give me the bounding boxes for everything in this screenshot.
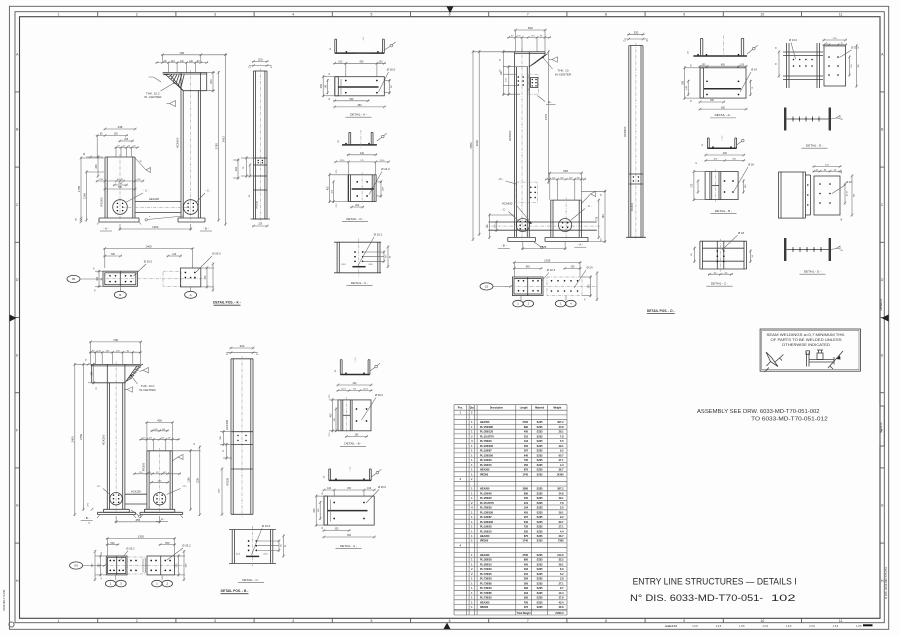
svg-text:PL:250/280: PL:250/280 bbox=[480, 426, 494, 429]
svg-text:1758: 1758 bbox=[77, 185, 81, 192]
svg-text:36.7: 36.7 bbox=[559, 469, 564, 472]
TR column top plate and right wing bbox=[503, 52, 545, 67]
svg-text:HEA300: HEA300 bbox=[480, 554, 490, 557]
BL tall dims left bbox=[74, 363, 76, 516]
svg-text:S235: S235 bbox=[537, 464, 543, 467]
TL plan left plate pair bbox=[103, 271, 138, 286]
svg-text:140: 140 bbox=[172, 253, 177, 256]
svg-text:29.1: 29.1 bbox=[559, 511, 564, 514]
svg-text:DETAIL POS. - K -: DETAIL POS. - K - bbox=[213, 301, 241, 305]
svg-text:1295: 1295 bbox=[544, 259, 551, 263]
TR tall dims far left bbox=[472, 50, 474, 241]
svg-text:S235: S235 bbox=[537, 592, 543, 595]
svg-text:280: 280 bbox=[320, 84, 323, 89]
right band format box bbox=[880, 406, 884, 446]
fold mark left center bbox=[10, 315, 17, 322]
svg-text:7.8: 7.8 bbox=[560, 502, 564, 505]
TR detail circle right base bbox=[559, 219, 572, 232]
svg-text:Ø 26.0: Ø 26.0 bbox=[375, 393, 384, 397]
svg-text:- A -: - A - bbox=[159, 517, 164, 521]
TR side view column bbox=[629, 43, 643, 239]
TL detail C right dims bbox=[383, 246, 392, 269]
svg-text:8.3: 8.3 bbox=[560, 568, 564, 571]
svg-text:PL:730/20: PL:730/20 bbox=[480, 597, 492, 600]
BL detail B caption bbox=[340, 442, 366, 447]
BL detail circle right bbox=[153, 493, 165, 505]
svg-text:7: 7 bbox=[527, 13, 529, 17]
TL detail C dia label bbox=[358, 233, 383, 266]
BL flag symbol near gusset bbox=[140, 368, 149, 373]
svg-text:- D -: - D - bbox=[498, 177, 504, 181]
svg-text:4.4: 4.4 bbox=[560, 464, 564, 467]
svg-text:6033-MD-T70-051: 6033-MD-T70-051 bbox=[2, 589, 6, 611]
TR dim row at top bbox=[507, 36, 551, 38]
BL -C- callouts bbox=[96, 484, 188, 495]
TL dim 230/530 bbox=[104, 188, 137, 190]
svg-text:S235: S235 bbox=[537, 431, 543, 434]
svg-text:10: 10 bbox=[761, 13, 765, 17]
TR detail C bottom dims bbox=[708, 273, 733, 275]
TR stub dim row bbox=[545, 178, 586, 180]
svg-text:IPE300: IPE300 bbox=[256, 200, 259, 209]
svg-text:IPE500: IPE500 bbox=[480, 540, 489, 543]
BL caption DETAIL POS - B - bbox=[221, 589, 249, 594]
TL plan dim 1400 bbox=[103, 248, 194, 250]
svg-text:TO 6033-MD-T70-051-012: TO 6033-MD-T70-051-012 bbox=[751, 417, 828, 423]
svg-text:HEA200: HEA200 bbox=[480, 535, 490, 538]
svg-text:HCA500: HCA500 bbox=[623, 126, 627, 137]
svg-text:A: A bbox=[190, 293, 192, 297]
svg-text:890: 890 bbox=[524, 426, 529, 429]
TL dim row 65 150 bbox=[96, 135, 128, 137]
svg-text:PL:25.87/70: PL:25.87/70 bbox=[480, 435, 494, 438]
BL plan dims 540 550 bbox=[106, 542, 176, 546]
svg-text:HEA200: HEA200 bbox=[149, 197, 160, 201]
svg-text:210: 210 bbox=[524, 502, 529, 505]
svg-text:OTHERWISE INDICATED: OTHERWISE INDICATED bbox=[782, 343, 831, 347]
BL side view dim 320 bbox=[230, 347, 255, 349]
TL detail D plan square bbox=[348, 172, 376, 204]
svg-text:550: 550 bbox=[165, 542, 170, 545]
TL side view lower labels bbox=[249, 190, 267, 209]
svg-text:1470: 1470 bbox=[544, 113, 548, 120]
BL detail C caption bbox=[238, 578, 264, 583]
TR flag symbol bbox=[549, 57, 558, 62]
svg-text:ENTRY LINE STRUCTURES — DETAIL: ENTRY LINE STRUCTURES — DETAILS I bbox=[633, 576, 797, 587]
svg-text:PL:780/20: PL:780/20 bbox=[480, 440, 492, 443]
TR detail A bottom dims bbox=[699, 80, 755, 111]
svg-text:PL:200/15: PL:200/15 bbox=[480, 530, 492, 533]
svg-text:2790: 2790 bbox=[522, 421, 528, 424]
svg-text:Weight: Weight bbox=[553, 407, 561, 410]
svg-text:43.4: 43.4 bbox=[559, 601, 564, 604]
bottom scale ruler bbox=[665, 624, 873, 628]
svg-text:S235: S235 bbox=[537, 526, 543, 529]
svg-text:Ø 18: Ø 18 bbox=[738, 231, 745, 235]
svg-text:Ø 26: Ø 26 bbox=[748, 163, 754, 167]
BL detail A left dims bbox=[313, 492, 324, 530]
svg-text:Ø 24: Ø 24 bbox=[586, 266, 593, 270]
svg-text:S235: S235 bbox=[537, 450, 543, 453]
svg-text:PL:250/45: PL:250/45 bbox=[480, 492, 492, 495]
BL plan dim 1305 bbox=[106, 537, 176, 539]
svg-text:2: 2 bbox=[136, 13, 138, 17]
svg-text:IPE300: IPE300 bbox=[100, 197, 104, 207]
svg-text:4.4: 4.4 bbox=[560, 530, 564, 533]
svg-text:250: 250 bbox=[524, 464, 529, 467]
svg-text:- C -: - C - bbox=[143, 189, 149, 193]
TR detail B right dim bbox=[742, 180, 747, 194]
svg-text:DETAIL - D -: DETAIL - D - bbox=[346, 217, 363, 221]
svg-text:290: 290 bbox=[524, 597, 529, 600]
TR detail A caption bbox=[710, 113, 736, 118]
svg-text:1 0,5: 1 0,5 bbox=[809, 625, 815, 628]
svg-text:Material: Material bbox=[535, 407, 544, 410]
svg-text:760: 760 bbox=[602, 214, 605, 219]
TR main tall column HCA500 bbox=[515, 49, 530, 240]
svg-text:214.6: 214.6 bbox=[557, 554, 564, 557]
svg-text:1238: 1238 bbox=[197, 477, 200, 483]
TL plan left dims bbox=[94, 267, 105, 292]
svg-text:Tavola 98: Tavola 98 bbox=[880, 422, 883, 433]
svg-text:G: G bbox=[881, 504, 884, 508]
svg-text:04: 04 bbox=[74, 564, 78, 568]
TL caption DETAIL POS - K - bbox=[213, 301, 241, 306]
TR detail D caption bbox=[800, 270, 826, 275]
svg-text:320: 320 bbox=[634, 31, 639, 35]
svg-text:790: 790 bbox=[524, 601, 529, 604]
svg-text:284: 284 bbox=[524, 578, 529, 581]
BL side view corner dims bbox=[226, 351, 259, 356]
TR detail C left dim bbox=[691, 247, 696, 263]
TL detail D right dim bbox=[376, 180, 385, 197]
svg-text:1 0,5: 1 0,5 bbox=[692, 625, 698, 628]
svg-text:1400: 1400 bbox=[145, 245, 152, 249]
TR detail D column side rect bbox=[779, 172, 811, 218]
svg-text:S235: S235 bbox=[537, 469, 543, 472]
BL detail C 24.5 labels bbox=[236, 554, 269, 556]
TL detail D caption bbox=[342, 217, 368, 222]
svg-text:27.1: 27.1 bbox=[559, 526, 564, 529]
svg-text:400: 400 bbox=[157, 419, 162, 423]
svg-text:57.3: 57.3 bbox=[336, 170, 338, 174]
svg-text:Ø 22.2: Ø 22.2 bbox=[547, 268, 556, 272]
svg-text:9: 9 bbox=[683, 619, 685, 623]
svg-text:DETAIL - D -: DETAIL - D - bbox=[804, 270, 821, 274]
svg-text:DETAIL - B -: DETAIL - B - bbox=[344, 442, 361, 446]
TR plan double ovals left bbox=[513, 296, 534, 307]
svg-text:1: 1 bbox=[58, 619, 60, 623]
BL side view left dims bbox=[220, 430, 232, 459]
svg-text:S235: S235 bbox=[537, 530, 543, 533]
TL tall dim 3433 bbox=[225, 53, 227, 225]
svg-text:S235: S235 bbox=[537, 516, 543, 519]
svg-text:S235: S235 bbox=[537, 540, 543, 543]
svg-text:PL:230/200: PL:230/200 bbox=[480, 511, 494, 514]
TL plan right dims bbox=[201, 263, 215, 292]
TL detail A plan rect bbox=[335, 77, 385, 96]
svg-text:S235: S235 bbox=[537, 454, 543, 457]
BL detail B plan square bbox=[338, 398, 371, 434]
svg-text:529: 529 bbox=[349, 98, 354, 101]
svg-text:2790: 2790 bbox=[79, 433, 83, 440]
svg-text:870: 870 bbox=[524, 469, 529, 472]
TL detail D dims top bbox=[334, 152, 390, 175]
TL short dim 200 far right bbox=[237, 159, 239, 180]
svg-text:S235: S235 bbox=[537, 502, 543, 505]
svg-text:IN-CENTER: IN-CENTER bbox=[139, 388, 156, 392]
TR -C- callout left bbox=[501, 207, 517, 220]
svg-text:1305: 1305 bbox=[138, 535, 145, 539]
TL beam HEA200 between columns bbox=[122, 197, 189, 212]
TL weld hatch at column top bbox=[149, 74, 185, 91]
svg-text:36.7: 36.7 bbox=[559, 535, 564, 538]
svg-text:scale1:10: scale1:10 bbox=[665, 624, 678, 628]
svg-text:1360: 1360 bbox=[152, 225, 159, 229]
svg-text:S235: S235 bbox=[537, 606, 543, 609]
BL detail B mini section bbox=[335, 357, 370, 374]
svg-text:7.8: 7.8 bbox=[560, 435, 564, 438]
svg-text:PL:730/20: PL:730/20 bbox=[480, 587, 492, 590]
svg-text:Ø 24: Ø 24 bbox=[751, 68, 757, 72]
svg-text:S235: S235 bbox=[537, 535, 543, 538]
BL side view splice marks bbox=[231, 432, 253, 445]
svg-text:PL:730/20: PL:730/20 bbox=[480, 578, 492, 581]
svg-text:540: 540 bbox=[111, 542, 116, 545]
svg-text:- A -: - A - bbox=[578, 243, 583, 247]
svg-text:45: 45 bbox=[825, 43, 827, 45]
svg-text:9.2: 9.2 bbox=[560, 450, 564, 453]
svg-text:1 0,5: 1 0,5 bbox=[716, 625, 722, 628]
BL dim 700 over column bbox=[89, 341, 142, 343]
svg-text:455: 455 bbox=[135, 518, 140, 522]
BL dim 455 bbox=[115, 521, 162, 523]
svg-text:Ø 25.0: Ø 25.0 bbox=[144, 260, 153, 264]
svg-text:HEA500: HEA500 bbox=[480, 421, 490, 424]
svg-text:11: 11 bbox=[839, 13, 843, 17]
svg-text:S235: S235 bbox=[537, 421, 543, 424]
svg-text:80: 80 bbox=[824, 169, 826, 171]
BL plan right dims bbox=[174, 550, 187, 581]
svg-text:100: 100 bbox=[338, 61, 343, 64]
svg-text:5.2: 5.2 bbox=[560, 573, 564, 576]
svg-text:267: 267 bbox=[524, 516, 529, 519]
svg-text:9: 9 bbox=[683, 13, 685, 17]
svg-text:S235: S235 bbox=[537, 601, 543, 604]
TR dashed detail box -D- bbox=[498, 177, 538, 203]
svg-text:PL:280/20: PL:280/20 bbox=[480, 559, 492, 562]
BL base weld flag bbox=[131, 510, 141, 518]
fold mark right center bbox=[882, 315, 889, 322]
TR detail circle left base bbox=[516, 219, 529, 232]
TR detail B dims top bbox=[704, 152, 754, 191]
svg-text:Ø 16.2: Ø 16.2 bbox=[374, 233, 383, 237]
TR detail B caption bbox=[711, 209, 737, 214]
svg-text:OF PARTS TO BE WELDED UNLESS: OF PARTS TO BE WELDED UNLESS bbox=[771, 338, 843, 342]
svg-text:S235: S235 bbox=[537, 568, 543, 571]
BL detail circle left bbox=[110, 493, 122, 505]
TR detail A plan rect bbox=[700, 68, 746, 98]
svg-text:540: 540 bbox=[528, 26, 533, 30]
svg-text:DETAIL - C -: DETAIL - C - bbox=[242, 578, 259, 582]
BL stub dim rows bbox=[140, 422, 180, 450]
TR detail C dia label bbox=[722, 231, 744, 250]
TL detail A caption bbox=[346, 113, 372, 118]
svg-text:200: 200 bbox=[234, 166, 238, 171]
svg-text:45: 45 bbox=[816, 169, 818, 171]
assembly reference note bbox=[697, 409, 828, 423]
BL small dim 75 left of top bbox=[86, 358, 90, 366]
svg-text:24.8: 24.8 bbox=[559, 492, 564, 495]
TL detail circle right base bbox=[183, 200, 198, 215]
svg-text:- A -: - A - bbox=[103, 227, 108, 231]
TL left column IPE300 bbox=[105, 154, 135, 220]
svg-text:2400: 2400 bbox=[71, 436, 75, 443]
svg-text:Ø 26.0: Ø 26.0 bbox=[387, 68, 396, 72]
TL detail D left dims bbox=[327, 170, 348, 208]
svg-text:- C -: - C - bbox=[182, 484, 188, 488]
BL weld hatch on gusset bbox=[127, 364, 144, 381]
TL mid dim row 115 20 20 115 bbox=[96, 180, 145, 182]
TL detail D bottom dim bbox=[350, 206, 364, 208]
BL plan dia leaders bbox=[121, 544, 192, 561]
svg-text:450: 450 bbox=[359, 61, 364, 64]
TR plan dims 545 300 bbox=[513, 266, 582, 270]
svg-text:450: 450 bbox=[524, 445, 529, 448]
svg-text:3060: 3060 bbox=[475, 140, 479, 147]
TR detail B left dims bbox=[692, 162, 706, 201]
TR detail A top dims bbox=[699, 65, 748, 67]
TR stub column right bbox=[551, 198, 582, 240]
TR detail B mini section bbox=[702, 136, 736, 149]
svg-text:210: 210 bbox=[524, 573, 529, 576]
svg-text:S235: S235 bbox=[537, 587, 543, 590]
svg-text:DETAIL - A -: DETAIL - A - bbox=[350, 113, 367, 117]
BL column top plate and left wing bbox=[91, 364, 141, 382]
svg-text:PL:720/40: PL:720/40 bbox=[480, 568, 492, 571]
svg-text:DETAIL POS. - D -: DETAIL POS. - D - bbox=[647, 309, 675, 313]
TR base weld flag bbox=[533, 242, 543, 249]
svg-text:S235: S235 bbox=[537, 497, 543, 500]
BL plan middle hidden plate bbox=[127, 557, 145, 574]
BL plan centerline bbox=[98, 565, 185, 567]
svg-text:420: 420 bbox=[360, 152, 365, 155]
svg-text:35: 35 bbox=[101, 552, 103, 554]
BL side view lower marks bbox=[219, 468, 254, 516]
TR plan right hidden plate bbox=[547, 277, 582, 296]
svg-text:DETAIL - A -: DETAIL - A - bbox=[715, 113, 732, 117]
svg-text:2795: 2795 bbox=[214, 143, 218, 150]
BL stub column IPE300 bbox=[147, 448, 172, 511]
TR detail A mini section bbox=[688, 36, 748, 59]
BL base plates bbox=[97, 509, 183, 518]
svg-text:307.2: 307.2 bbox=[557, 421, 564, 424]
svg-text:Ø 26.2: Ø 26.2 bbox=[182, 544, 191, 548]
svg-text:PL:190/87: PL:190/87 bbox=[480, 516, 492, 519]
TR dim 1470 vertical bbox=[547, 50, 549, 183]
svg-text:450: 450 bbox=[524, 511, 529, 514]
svg-text:1 0,5: 1 0,5 bbox=[739, 625, 745, 628]
svg-text:7: 7 bbox=[527, 619, 529, 623]
BL dim row bbox=[89, 351, 142, 353]
svg-text:438: 438 bbox=[118, 125, 123, 129]
svg-text:IPE300: IPE300 bbox=[480, 606, 489, 609]
BL base labels bbox=[81, 516, 168, 522]
svg-text:1188: 1188 bbox=[187, 477, 190, 483]
TL weld leader at left column top bbox=[135, 158, 151, 173]
TR detail E right dims bbox=[848, 44, 860, 87]
svg-text:548: 548 bbox=[563, 169, 568, 173]
svg-text:290: 290 bbox=[524, 582, 529, 585]
TR stub weld flag bbox=[581, 191, 595, 203]
BL flag symbol lower bbox=[124, 387, 133, 392]
BL tall column HCK300 bbox=[107, 362, 125, 512]
weld symbol left in note box bbox=[765, 352, 784, 372]
TR side view corner dims bbox=[623, 38, 649, 43]
TL vertical dim 1146 bbox=[86, 171, 88, 222]
svg-text:15: 15 bbox=[485, 285, 489, 289]
svg-text:5: 5 bbox=[370, 13, 372, 17]
svg-text:210: 210 bbox=[524, 435, 529, 438]
svg-text:- C -: - C - bbox=[96, 484, 102, 488]
svg-text:PL:280/120: PL:280/120 bbox=[480, 431, 494, 434]
BL detail A bottom dims bbox=[323, 529, 376, 539]
TL wing dim 200 right side bbox=[212, 71, 214, 92]
svg-text:S235: S235 bbox=[537, 473, 543, 476]
svg-text:220: 220 bbox=[258, 58, 263, 62]
svg-text:PL:200/15: PL:200/15 bbox=[480, 464, 492, 467]
svg-text:ASSEMBLY SEE DRW. 6033-MD-T70-: ASSEMBLY SEE DRW. 6033-MD-T70-051-002 bbox=[697, 409, 820, 415]
TR bottom dim 825 bbox=[521, 248, 566, 250]
svg-text:24.8: 24.8 bbox=[559, 426, 564, 429]
TR detail C right dims bbox=[749, 250, 754, 263]
svg-text:262: 262 bbox=[524, 568, 529, 571]
TL detail A left dims bbox=[320, 72, 334, 100]
BL detail B weld symbol bbox=[370, 363, 380, 371]
svg-text:PL:280/15: PL:280/15 bbox=[480, 563, 492, 566]
TR detail E left dims bbox=[776, 47, 781, 78]
svg-text:PL:190/20: PL:190/20 bbox=[480, 459, 492, 462]
svg-text:Ø 26.0: Ø 26.0 bbox=[378, 485, 387, 489]
svg-text:27.1: 27.1 bbox=[559, 582, 564, 585]
TL plan dim 140 over right plate bbox=[167, 255, 182, 257]
svg-text:PL:190/20: PL:190/20 bbox=[480, 526, 492, 529]
svg-text:S235: S235 bbox=[537, 459, 543, 462]
TL side view bottom marks bbox=[251, 219, 271, 227]
svg-text:- C -: - C - bbox=[205, 189, 211, 193]
svg-text:Ø 22: Ø 22 bbox=[846, 180, 852, 184]
svg-text:2790: 2790 bbox=[522, 554, 528, 557]
BL plan double ovals A bbox=[152, 576, 173, 587]
TL side view dim 220 bbox=[252, 60, 269, 62]
svg-text:57.3: 57.3 bbox=[336, 204, 338, 208]
svg-text:400: 400 bbox=[524, 563, 529, 566]
TR base dims left bbox=[487, 214, 515, 239]
TL dim row 70 20 20 25 bbox=[115, 147, 139, 149]
TL bottom dim 1360 bbox=[119, 228, 193, 230]
svg-text:S235: S235 bbox=[537, 563, 543, 566]
svg-text:320: 320 bbox=[240, 344, 245, 348]
svg-text:S235: S235 bbox=[537, 521, 543, 524]
TL plan leader dia 26.0 bbox=[196, 252, 221, 273]
svg-text:6: 6 bbox=[449, 13, 451, 17]
svg-text:400: 400 bbox=[723, 152, 728, 155]
svg-text:SEAM WELDINGS a=0,7 MINIMUM TH: SEAM WELDINGS a=0,7 MINIMUM THK. bbox=[767, 333, 846, 337]
svg-text:HEA300: HEA300 bbox=[480, 601, 490, 604]
svg-text:PL:25.87/70: PL:25.87/70 bbox=[480, 502, 494, 505]
svg-text:30: 30 bbox=[776, 47, 778, 49]
BL plan left plate pair bbox=[106, 556, 127, 575]
